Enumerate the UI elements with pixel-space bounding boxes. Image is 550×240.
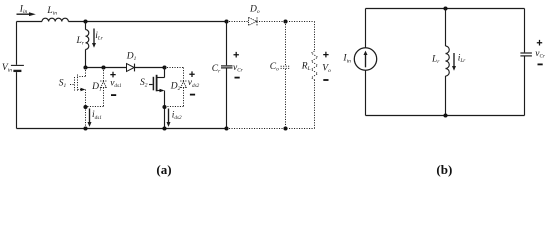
wire D1 to S2 node (135, 67, 165, 69)
node D1/S2/Db2 junction (162, 65, 166, 69)
label Vo plus (323, 52, 328, 58)
inductor Lin (42, 18, 68, 21)
current source Iin (354, 48, 376, 70)
voltage source Vin battery (11, 64, 24, 66)
body diode Db1 (dashed) (103, 68, 105, 82)
wire S1 source column dashed (85, 90, 87, 129)
wire top rail to Cr (68, 21, 226, 23)
MOSFET S2 (solid, on) (164, 68, 166, 78)
node Lr bottom (b) (443, 113, 447, 117)
current arrow iLr (b) (453, 53, 455, 66)
wire Lr upper lead (b) (445, 9, 447, 47)
resistor RL (dashed) (314, 22, 316, 52)
current arrow ids1 (89, 109, 91, 123)
node Cr bottom rail junction (224, 126, 228, 130)
label vCr minus (b) (538, 63, 543, 65)
wire top rail left segment (17, 21, 43, 23)
node Lr top (b) (443, 6, 447, 10)
node Lr/S1 junction (83, 65, 87, 69)
wire output bottom dashed (227, 128, 315, 130)
capacitor Cr (226, 22, 228, 66)
body diode Db2 (dashed) (165, 67, 184, 69)
current arrow Iin (17, 13, 30, 15)
node Db1 junction (101, 65, 105, 69)
label vCr minus (235, 77, 240, 79)
capacitor Co (dashed) (285, 22, 287, 66)
wire left branch upper (16, 22, 18, 65)
wire left branch lower (b) (365, 70, 367, 115)
wire Do cathode to output top dashed (257, 21, 315, 23)
label vds2 minus (190, 94, 195, 96)
capacitor vCr (b) (524, 9, 526, 53)
inductor Lr (b) (446, 46, 450, 76)
svg-text:(b): (b) (436, 162, 452, 177)
MOSFET S1 (dashed, off) (85, 68, 87, 77)
svg-text:(a): (a) (156, 162, 171, 177)
wire bottom rail solid (17, 128, 227, 130)
current arrow ids2 (168, 109, 170, 123)
node Co top junction (283, 19, 287, 23)
wire Do anode dashed (227, 21, 249, 23)
label vds1 minus (111, 94, 116, 96)
wire left branch lower (16, 72, 18, 128)
current arrow iLr (93, 29, 95, 44)
node S1 bottom rail junction (83, 126, 87, 130)
node S1 source / Db1 junction (83, 105, 87, 109)
label vds2 plus (189, 71, 194, 77)
label vds1 plus (110, 72, 115, 78)
label vCr plus (b) (537, 40, 542, 46)
wire Lr upper lead (85, 22, 87, 30)
label vCr plus (234, 52, 239, 58)
label Vo minus (323, 79, 328, 81)
wire top rail (b) (366, 8, 525, 10)
node at Lr top (83, 19, 87, 23)
diode Do (dashed) (249, 17, 257, 25)
node Co bottom rail junction (283, 126, 287, 130)
wire Lr lower lead (85, 49, 87, 67)
node S2 bottom rail junction (162, 126, 166, 130)
wire left branch upper (b) (365, 9, 367, 48)
diode D1 (127, 64, 135, 72)
wire node row to D1 (86, 67, 127, 69)
node Cr top junction (224, 19, 228, 23)
wire bottom rail (b) (366, 115, 525, 117)
node S2 source / Db2 junction (162, 105, 166, 109)
wire S2 source column (164, 91, 166, 129)
inductor Lr (86, 30, 89, 50)
wire Lr lower lead (b) (445, 76, 447, 116)
